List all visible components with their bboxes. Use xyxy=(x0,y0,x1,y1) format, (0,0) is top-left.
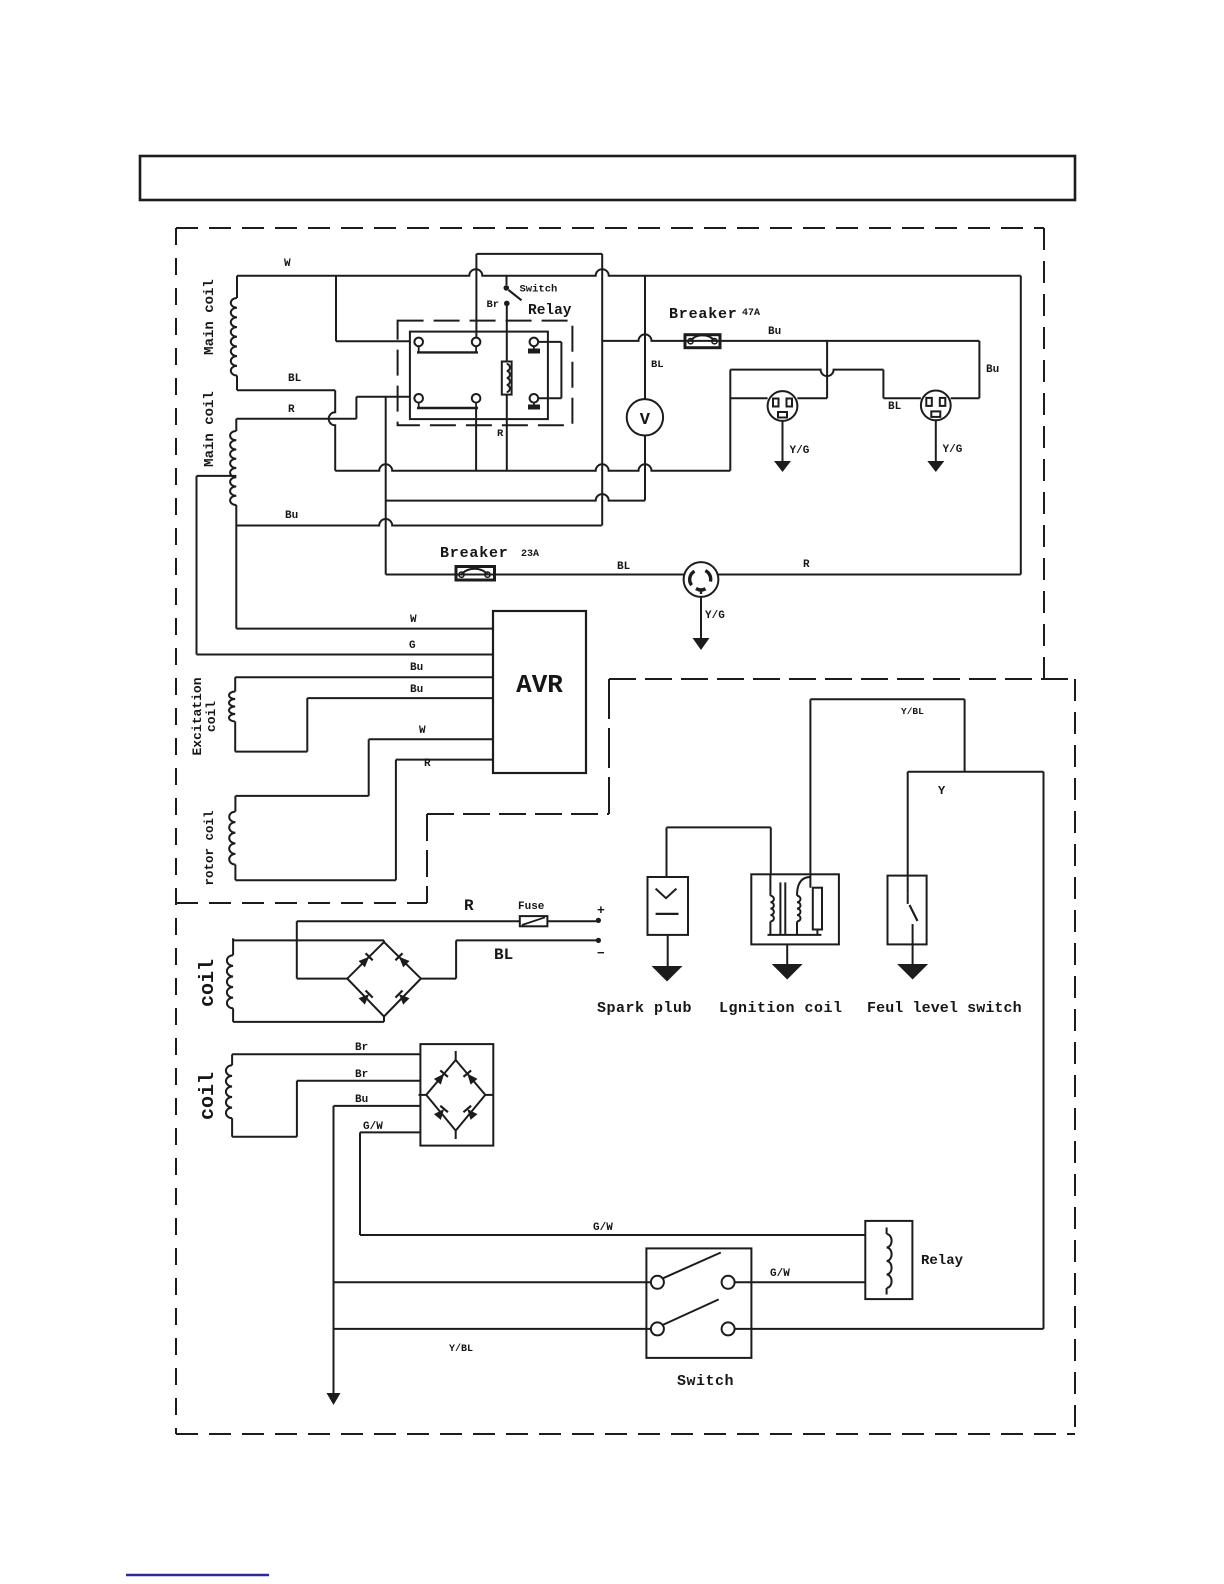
Y/BL arrow to ground xyxy=(327,1393,341,1405)
receptacle outlet right xyxy=(921,391,951,421)
svg-text:BL: BL xyxy=(494,946,513,964)
wire Br 1 xyxy=(232,1053,420,1055)
rect diode top-right xyxy=(463,1070,477,1084)
ignition secondary winding xyxy=(797,877,810,896)
relay terminal top-right xyxy=(530,338,539,347)
wire Y/BL from ignition coil xyxy=(809,699,811,888)
ignition coil box xyxy=(751,874,839,944)
bridge diode bottom-left xyxy=(358,991,372,1005)
engine dashed enclosure: right edge xyxy=(1074,679,1076,1434)
svg-text:Switch: Switch xyxy=(520,284,558,296)
bridge diode top-right xyxy=(395,953,409,967)
wire Bu excitation bottom to AVR xyxy=(307,697,493,699)
wire Bu (main coil 2 bottom) xyxy=(236,519,602,526)
generator dashed enclosure: right edge xyxy=(1043,228,1045,679)
wire: W branch down to relay top-left xyxy=(335,276,337,342)
svg-text:BL: BL xyxy=(651,359,664,371)
svg-text:coil: coil xyxy=(197,1072,220,1120)
wire Y/BL to switch bottom-left xyxy=(334,1328,651,1330)
charge coil xyxy=(232,938,234,955)
voltmeter branch from W wire xyxy=(644,276,646,399)
rotor coil top wire xyxy=(368,739,370,796)
wire from ignition to spark plug xyxy=(667,826,771,828)
engine dashed enclosure: step vertical x=609 xyxy=(608,679,610,814)
ground lead Y/G left outlet xyxy=(782,421,784,463)
wire G/W switch to relay xyxy=(735,1281,866,1283)
svg-text:Y/BL: Y/BL xyxy=(449,1343,473,1355)
wire G/W drop xyxy=(359,1132,361,1235)
wire BL (-) from bridge xyxy=(421,978,456,980)
wire: neutral top run to right outlet, hop over left outlet feed xyxy=(730,370,883,377)
svg-text:Main coil: Main coil xyxy=(202,391,218,467)
wire: W right side corner down xyxy=(1020,276,1022,575)
wire W (main coil 1 top) xyxy=(237,269,1021,276)
svg-text:R: R xyxy=(464,897,474,915)
svg-text:Relay: Relay xyxy=(921,1253,964,1269)
relay terminal top-left xyxy=(414,338,423,347)
wire to breaker 23A xyxy=(386,574,684,576)
relay terminal bottom-right pad xyxy=(528,405,540,410)
generator dashed enclosure: bottom edge xyxy=(176,902,427,904)
wire Br 2 xyxy=(297,1080,421,1082)
rotor coil bottom wire xyxy=(235,879,396,881)
fuse xyxy=(520,916,548,926)
wire Bu drop to engine switch xyxy=(333,1106,335,1393)
stop relay box xyxy=(865,1221,912,1299)
relay contact bar bottom xyxy=(417,407,478,409)
svg-text:Switch: Switch xyxy=(677,1373,734,1390)
wire Br: relay coil feed xyxy=(506,303,508,361)
switch above relay xyxy=(506,276,508,285)
wire Y riser to fuel switch xyxy=(907,772,909,893)
main coil 2 xyxy=(235,419,237,431)
relay inner box xyxy=(410,332,548,420)
rectifier bridge diamond xyxy=(426,1060,485,1131)
charge coil bottom wire to bridge AC- xyxy=(233,1021,384,1023)
ground lead Y/G twist-lock xyxy=(700,597,702,640)
engine dashed enclosure: bottom edge xyxy=(176,1433,1075,1435)
rectifier box xyxy=(420,1044,493,1146)
svg-text:Relay: Relay xyxy=(528,303,572,319)
AVR box xyxy=(493,611,586,773)
fuel level switch box xyxy=(888,876,927,945)
wire BL horizontal distribution run xyxy=(335,464,730,470)
wire G/W to rectifier xyxy=(360,1131,420,1133)
svg-text:Bu: Bu xyxy=(410,684,423,696)
svg-text:23A: 23A xyxy=(521,549,539,560)
wire R rotor to AVR xyxy=(396,759,493,761)
svg-text:47A: 47A xyxy=(742,308,760,319)
wire W rotor top to AVR xyxy=(369,738,493,740)
breaker 47A symbol xyxy=(685,335,720,348)
engine dashed enclosure: step vertical x=427 xyxy=(426,814,428,903)
svg-text:Spark plub: Spark plub xyxy=(597,1000,692,1017)
svg-text:W: W xyxy=(410,614,417,626)
svg-text:G/W: G/W xyxy=(363,1121,383,1133)
ignition bottom bar xyxy=(768,934,822,936)
wire switch BR to right riser xyxy=(735,1328,1044,1330)
lighting coil xyxy=(231,1054,233,1065)
svg-text:R: R xyxy=(288,404,295,416)
wire G/W long run to relay xyxy=(360,1234,865,1236)
svg-text:Breaker: Breaker xyxy=(669,306,738,323)
wire to switch top-left xyxy=(334,1281,651,1283)
wire BL vertical drop, hops over R wire xyxy=(329,390,336,471)
svg-text:G/W: G/W xyxy=(593,1222,613,1234)
wire R to fuse (+) xyxy=(297,978,348,980)
spark plug ground xyxy=(667,935,669,967)
excitation coil xyxy=(234,677,236,691)
spark plug box xyxy=(648,877,689,935)
svg-text:coil: coil xyxy=(204,701,219,732)
svg-text:W: W xyxy=(284,258,291,270)
receptacle outlet left xyxy=(768,391,798,421)
svg-text:Y/BL: Y/BL xyxy=(901,706,924,717)
relay terminal top-right pad xyxy=(528,349,540,354)
svg-text:Br: Br xyxy=(487,299,500,311)
bridge diode bottom-right xyxy=(395,991,409,1005)
svg-text:R: R xyxy=(803,559,810,571)
ignition ground xyxy=(786,944,788,965)
svg-text:V: V xyxy=(640,411,651,430)
svg-text:Main coil: Main coil xyxy=(202,279,218,355)
ignition core xyxy=(779,882,781,935)
switch terminal BL xyxy=(651,1322,664,1335)
rect diode bottom-right xyxy=(463,1106,477,1120)
relay terminal bottom-middle xyxy=(472,394,481,403)
stop relay coil xyxy=(886,1228,888,1235)
wire: junction vertical x=385.7 xyxy=(385,397,387,575)
relay coil element xyxy=(502,362,512,395)
ignition primary winding xyxy=(769,874,771,896)
svg-text:AVR: AVR xyxy=(516,670,563,700)
svg-text:BL: BL xyxy=(888,401,902,413)
svg-text:BL: BL xyxy=(617,561,631,573)
ground lead Y/G right outlet xyxy=(935,420,937,463)
svg-text:R: R xyxy=(497,428,504,440)
svg-text:Y: Y xyxy=(938,784,946,798)
twist-lock outlet xyxy=(684,562,719,597)
relay dashed box xyxy=(398,321,573,426)
ignition resistor xyxy=(813,888,822,930)
excitation coil bottom wire xyxy=(235,751,307,753)
svg-text:Y/G: Y/G xyxy=(790,445,810,457)
wire R rise and run to relay bottom-left xyxy=(355,397,357,419)
rotor coil xyxy=(234,796,236,812)
switch blade bottom xyxy=(663,1299,719,1325)
svg-text:G/W: G/W xyxy=(770,1268,790,1280)
relay right-side link wire xyxy=(538,341,561,343)
svg-text:Y/G: Y/G xyxy=(943,444,963,456)
svg-text:BL: BL xyxy=(288,373,302,385)
wire R (main coil 2 top) xyxy=(236,418,356,420)
relay terminal bottom-right xyxy=(530,394,539,403)
svg-text:Bu: Bu xyxy=(285,510,298,522)
svg-text:Br: Br xyxy=(355,1069,368,1081)
lighting coil bottom wire xyxy=(232,1136,297,1138)
svg-text:Lgnition coil: Lgnition coil xyxy=(719,1000,843,1017)
voltmeter V xyxy=(627,399,663,435)
blue footer line xyxy=(126,1574,269,1577)
wire W to AVR (from main coil 2 bottom) xyxy=(236,628,493,630)
svg-text:coil: coil xyxy=(197,959,220,1007)
charge coil top wire to bridge AC+ xyxy=(232,938,234,940)
wire Bu excitation top to AVR xyxy=(235,676,493,678)
main coil 1 xyxy=(236,276,238,298)
wire: relay bottom-middle terminal to BL run xyxy=(475,408,477,471)
wire Y junction run xyxy=(908,771,1044,773)
fuel switch ground xyxy=(912,944,914,965)
svg-text:Excitation: Excitation xyxy=(190,677,205,755)
main coil 2 center tap wire xyxy=(197,475,237,477)
svg-text:Br: Br xyxy=(355,1042,368,1054)
rect diode bottom-left xyxy=(434,1106,448,1120)
svg-text:+: + xyxy=(597,903,605,918)
wire: neutral riser to outlets xyxy=(729,370,731,471)
engine dashed enclosure: top edge xyxy=(609,678,1075,680)
engine stop switch box xyxy=(646,1248,751,1358)
wire: voltmeter bottom run xyxy=(386,494,645,500)
svg-text:rotor coil: rotor coil xyxy=(203,810,217,885)
svg-text:Fuse: Fuse xyxy=(518,901,545,913)
engine dashed enclosure: step horizontal y=814 xyxy=(427,813,609,815)
svg-text:R: R xyxy=(424,758,431,770)
rectifier bridge (charge coil) xyxy=(347,942,421,1017)
wire G to AVR xyxy=(197,654,494,656)
wire: left outlet feed from breaker run xyxy=(826,341,828,398)
relay contact bar top xyxy=(417,351,478,353)
relay terminal top-middle xyxy=(472,338,481,347)
svg-text:W: W xyxy=(419,725,426,737)
svg-text:G: G xyxy=(409,640,416,652)
rect diode top-left xyxy=(434,1070,448,1084)
generator dashed enclosure: left edge xyxy=(175,228,177,1434)
relay terminal bottom-left xyxy=(414,394,423,403)
switch terminal BR xyxy=(722,1322,735,1335)
svg-text:Y/G: Y/G xyxy=(705,610,725,622)
terminal - xyxy=(596,938,601,943)
svg-text:Bu: Bu xyxy=(768,326,781,338)
bridge diode top-left xyxy=(358,953,372,967)
svg-text:Bu: Bu xyxy=(986,364,999,376)
generator dashed enclosure: top edge xyxy=(176,227,1044,229)
svg-text:Bu: Bu xyxy=(410,662,423,674)
switch terminal TR xyxy=(722,1276,735,1289)
svg-text:Breaker: Breaker xyxy=(440,545,509,562)
svg-text:Feul level switch: Feul level switch xyxy=(867,1000,1022,1017)
switch terminal TL xyxy=(651,1276,664,1289)
switch blade top xyxy=(663,1253,721,1279)
wire to breaker 47A xyxy=(602,334,979,340)
terminal + xyxy=(596,918,601,923)
wire BL (main coil 1 bottom) xyxy=(237,389,335,391)
svg-text:Bu: Bu xyxy=(355,1094,368,1106)
breaker 23A symbol xyxy=(456,567,495,581)
switch/relay frame rectangle xyxy=(476,253,602,255)
wire: breaker output down to right outlet xyxy=(978,341,980,398)
wire Bu to rectifier xyxy=(334,1105,421,1107)
wire right side down to switch xyxy=(1043,772,1045,1329)
svg-text:−: − xyxy=(597,946,605,961)
title box xyxy=(140,156,1075,200)
wire from twist-lock to right edge xyxy=(718,574,1020,576)
